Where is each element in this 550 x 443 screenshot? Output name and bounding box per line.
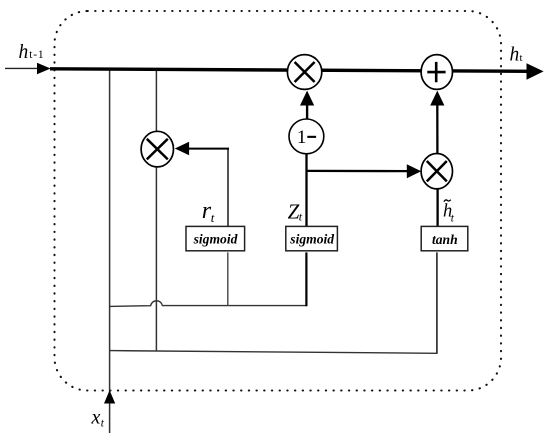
svg-text:t: t [451,212,455,224]
wire: bottom bus to tanh (y=350.6 -> 353.3) [110,351,437,354]
plus node on h line [421,55,452,90]
arrowhead into top multiply [300,91,314,106]
svg-text:1: 1 [297,127,307,148]
sigmoid box (update gate) [286,226,338,250]
main h line: thin lead-in [5,67,39,69]
wire: sigmoid1 bottom drop (x=227.8) [227,252,229,306]
arrowhead into plus [430,91,444,106]
svg-text:t-1: t-1 [29,49,44,61]
sigmoid box (reset gate) [186,226,245,250]
svg-text:t: t [299,210,303,224]
svg-text:Z: Z [288,199,300,223]
wire: x_t / h_(t-1) concat riser (x=109.6, top line to below border) [109,70,111,434]
label h_t (output) [510,44,523,65]
svg-text:t: t [520,52,523,64]
wire: right multiply up to plus (arrow) [436,101,438,154]
svg-text:h: h [19,42,29,63]
wire: lower bus to sigmoids (y=305.6) with hop over x=156.4 [110,301,307,307]
1-minus node [289,119,324,154]
svg-text:tanh: tanh [432,232,458,247]
wire: r_t feedback, sigmoid1 top up then left into reset multiply [227,148,229,227]
label h_(t-1) [19,42,45,63]
svg-text:t: t [211,210,215,225]
label h~_t (candidate) [443,200,455,225]
reset multiply node (left) [141,131,173,167]
wire: reset-path vertical (x=156.4 from top line through multiply to bottom bus) [155,70,157,351]
wire: 1-minus up to top multiply (arrow) [306,103,308,119]
wire: z branch to right multiply (y=170.9) [307,170,409,173]
svg-text:t: t [101,417,105,429]
wire: tanh bottom riser (x=436.9) [436,252,438,353]
arrowhead into reset multiply [175,142,189,155]
wire: z path, sigmoid2 top up to 1-minus circle [305,154,307,226]
output arrowhead h_t [527,63,544,80]
arrowhead entering cell [37,63,51,74]
svg-text:x: x [91,407,101,429]
arrowhead into right multiply [407,164,421,178]
tanh box [421,226,468,250]
wire: right multiply down to tanh top [436,189,438,227]
svg-text:h: h [510,44,520,65]
wire: sigmoid2 bottom drop (x=306.4) [305,252,307,306]
candidate multiply node (right) [421,154,452,189]
label Z_t [288,199,303,223]
dotted rounded border of GRU cell [55,11,502,391]
label r_t [202,198,215,225]
multiply node on h line (reset applied) [287,55,321,90]
main h line: thick bus [50,69,528,72]
label x_t (input) [91,407,105,430]
svg-text:sigmoid: sigmoid [193,231,238,246]
svg-text:sigmoid: sigmoid [289,231,334,246]
x_t input arrowhead at bottom border [104,390,115,403]
